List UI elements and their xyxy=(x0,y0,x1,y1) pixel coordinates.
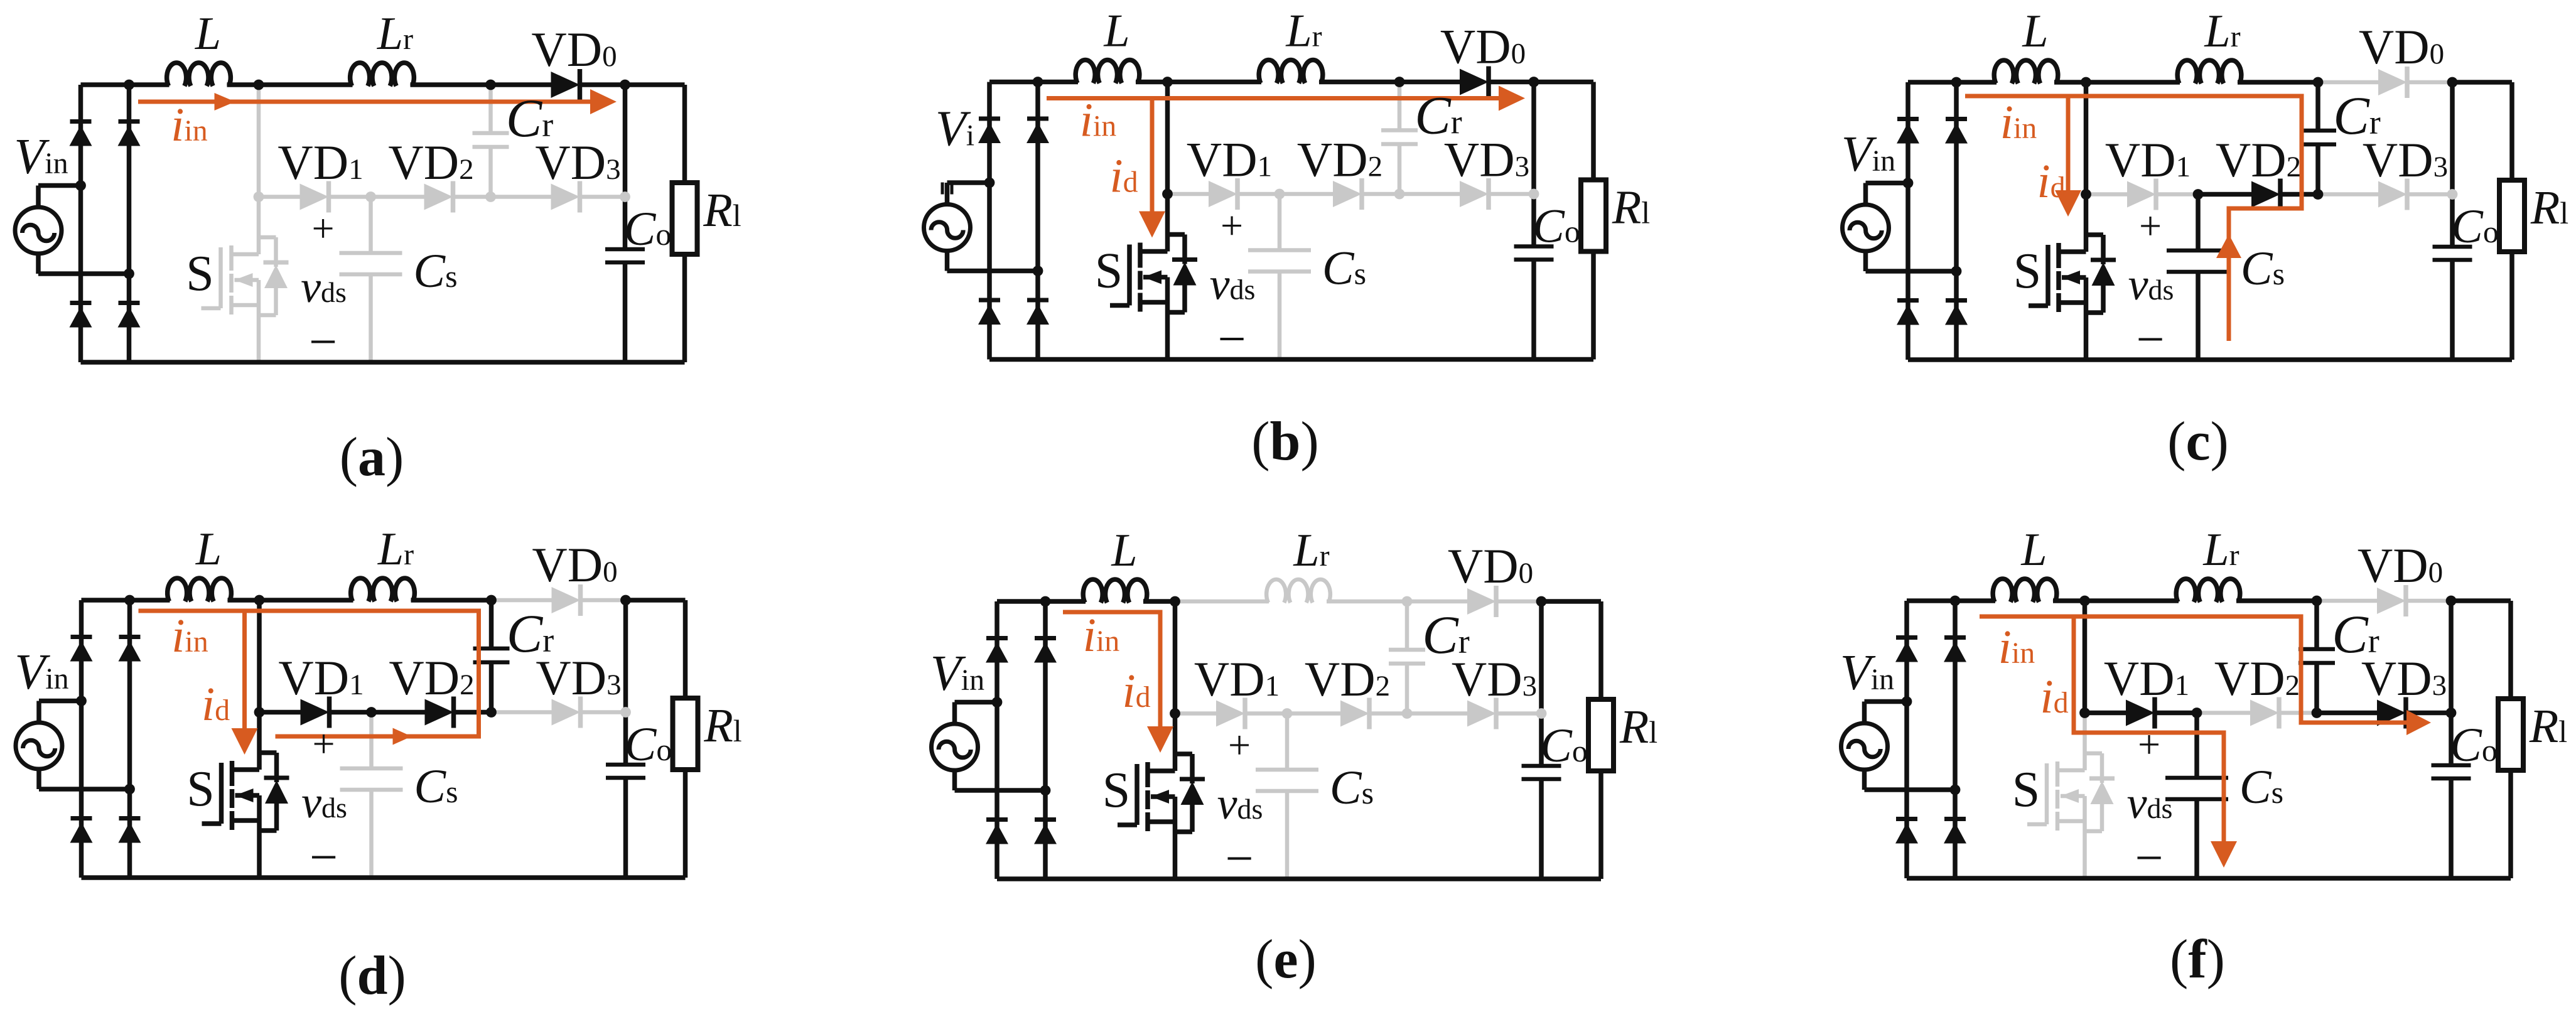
capacitor Cr (resonant) xyxy=(2298,649,2335,663)
capacitor Cs (snubber) xyxy=(340,768,403,790)
wire: Cr top node to VD0 xyxy=(492,598,552,603)
svg-text:+: + xyxy=(1221,203,1243,248)
wire: source bottom lead xyxy=(947,251,1038,271)
wire: Cr bottom node to VD3 xyxy=(2317,711,2377,716)
resistor Rl (load) xyxy=(1581,180,1606,252)
svg-text:(b): (b) xyxy=(1251,411,1319,472)
label Lr xyxy=(377,8,413,60)
wire: switch node down to drain xyxy=(2084,82,2089,195)
wire: Cs node to VD2 xyxy=(2198,192,2251,197)
diode VD1 xyxy=(300,181,329,213)
label L xyxy=(2020,524,2047,576)
svg-text:(d): (d) xyxy=(338,945,406,1006)
label Lr xyxy=(1285,6,1322,57)
wire: VD0 to output node xyxy=(1487,80,1534,85)
label plus sign xyxy=(311,206,334,250)
node: Lr / Cr / VD0 junction xyxy=(485,80,496,90)
wire: Co to bottom rail xyxy=(2449,778,2454,878)
label VD3 xyxy=(536,650,621,705)
diode VD3 xyxy=(552,697,581,728)
wire: bridge to inductor L xyxy=(989,80,1078,85)
diode VD2 xyxy=(2250,697,2279,729)
small terminal mark above source xyxy=(942,183,952,195)
resistor Rl (load) xyxy=(672,183,698,254)
wire: bridge right leg xyxy=(1954,82,1959,360)
wire: load to bottom rail xyxy=(2508,770,2513,878)
wire: output node down to Co xyxy=(1539,601,1544,766)
wire: bridge left leg xyxy=(987,82,992,360)
wire: top-right corner to load xyxy=(2509,82,2514,180)
wire: load to bottom rail xyxy=(2509,252,2514,360)
bridge diode upper-right xyxy=(1945,119,1968,144)
wire: Cs node to VD2 xyxy=(2197,711,2250,715)
label Co xyxy=(625,718,672,771)
wire: bottom return rail xyxy=(81,360,685,365)
label Lr xyxy=(2204,6,2240,57)
wire: Lr to Cr top node xyxy=(411,82,491,87)
wire: load to bottom rail xyxy=(1591,252,1596,360)
wire: Cs down to bottom rail xyxy=(2194,799,2199,878)
label S xyxy=(2013,244,2042,299)
label i_in (input current) xyxy=(2000,96,2037,149)
label Vin xyxy=(930,646,984,701)
wire: top node down to Cr xyxy=(488,85,493,133)
label S xyxy=(186,761,215,817)
bridge diode lower-left xyxy=(70,303,92,328)
node: VD1 / VD2 / Cs junction xyxy=(366,707,377,718)
wire: Cs node to VD2 xyxy=(371,195,424,199)
wire: output node to top-right corner xyxy=(1534,80,1593,85)
wire: diode row down to Cs xyxy=(1278,194,1282,250)
label VD1 xyxy=(2104,651,2189,706)
wire: Co to bottom rail xyxy=(1539,779,1544,879)
label Cr xyxy=(1415,85,1462,146)
wire: VD3 to output column xyxy=(579,710,626,714)
inductor Lr (resonant) xyxy=(1266,579,1330,603)
label L xyxy=(1111,525,1137,576)
wire: switch node to Lr xyxy=(2085,598,2179,603)
wire: VD0 to output node xyxy=(579,598,626,603)
body diode of switch S xyxy=(2086,235,2116,313)
wire: Cr top node to VD0 xyxy=(1399,80,1460,85)
wire: output node to top-right corner xyxy=(2452,80,2512,85)
node: source lead to right bridge leg xyxy=(1950,785,1961,795)
label plus sign xyxy=(1228,723,1251,767)
wire: switch node to Lr xyxy=(1175,600,1269,604)
svg-text:+: + xyxy=(311,206,334,250)
svg-text:L: L xyxy=(2022,6,2048,57)
wire: bridge to inductor L xyxy=(81,82,170,87)
svg-text:S: S xyxy=(2012,762,2040,817)
svg-text:+: + xyxy=(2138,722,2160,767)
diode VD0 (output boost diode) xyxy=(2378,67,2407,98)
wire: VD1 to Cs node xyxy=(1236,192,1280,196)
label Cs xyxy=(1322,242,1366,295)
label minus sign xyxy=(309,315,337,370)
wire: bridge right leg xyxy=(127,600,132,878)
body diode of switch S xyxy=(259,237,289,315)
wire: switch node to VD1 xyxy=(1175,711,1217,716)
wire: Co to bottom rail xyxy=(2450,260,2455,360)
diode VD1 xyxy=(1209,178,1237,210)
AC source Vin xyxy=(16,723,62,769)
node: VD3 cathode / output column junction xyxy=(2447,189,2458,200)
wire: load to bottom rail xyxy=(682,254,687,362)
capacitor Cs (snubber) xyxy=(1256,770,1318,791)
wire: VD1 to Cs node xyxy=(1244,711,1287,716)
wire: Cs down to bottom rail xyxy=(369,274,373,362)
label vds xyxy=(1217,778,1263,829)
inductor Lr (resonant) xyxy=(2177,60,2241,83)
label Cs xyxy=(2239,761,2283,814)
wire: VD3 to output column xyxy=(579,195,625,199)
wire: switch node to Lr xyxy=(2086,80,2180,85)
diode VD1 xyxy=(2126,697,2155,729)
node: switch drain / VD1 anode junction xyxy=(254,707,265,718)
wire: diode row down to Cs xyxy=(2194,713,2199,778)
wire: switch node down to drain xyxy=(2083,601,2088,713)
inductor Lr (resonant) xyxy=(350,63,414,86)
svg-text:L: L xyxy=(1103,6,1129,57)
wire: top node down to Cr xyxy=(2315,82,2320,131)
label VD0 xyxy=(531,22,617,77)
bridge diode lower-right xyxy=(118,303,141,328)
MOSFET switch S xyxy=(1110,194,1168,360)
label VD2 xyxy=(1297,132,1382,187)
bridge diode upper-left xyxy=(1895,638,1918,662)
wire: top node down to Cr xyxy=(489,600,494,648)
wire: Cr bottom node to VD3 xyxy=(2318,192,2378,196)
wire: Cr down to diode row xyxy=(1398,144,1402,195)
node: bridge right leg on top rail xyxy=(1040,596,1051,607)
MOSFET switch S xyxy=(1118,714,1175,880)
label Co xyxy=(2451,200,2499,253)
wire: bridge right leg xyxy=(1953,601,1958,878)
wire: output node to top-right corner xyxy=(1541,599,1601,604)
body diode of switch S xyxy=(1175,754,1205,832)
wire: VD0 to output node xyxy=(1495,600,1541,604)
wire: L to switch node xyxy=(2054,80,2086,85)
resistor Rl (load) xyxy=(2499,180,2525,252)
capacitor Co (output) xyxy=(2433,247,2472,260)
diode VD3 xyxy=(2377,697,2406,729)
wire: output node down to Co xyxy=(2450,82,2455,247)
node: VD3 cathode / output column junction xyxy=(1529,189,1539,200)
node: VD2 / VD3 / Cr junction xyxy=(486,707,497,718)
wire: bridge left leg xyxy=(78,85,84,362)
label S xyxy=(1095,244,1123,299)
label VD1 xyxy=(1194,652,1280,706)
svg-text:L: L xyxy=(195,8,221,60)
svg-text:S: S xyxy=(2013,244,2042,299)
node: VD1 / VD2 / Cs junction xyxy=(1282,708,1293,719)
label Vin xyxy=(935,102,974,157)
label Cs xyxy=(414,760,458,813)
wire: switch node down to drain xyxy=(1165,82,1170,195)
wire: VD3 to output column xyxy=(1487,192,1534,196)
wire: switch node to VD1 xyxy=(2085,711,2126,716)
node: L / Lr / switch drain junction xyxy=(254,595,265,606)
wire: source top lead xyxy=(38,186,81,208)
wire: VD3 to output column xyxy=(1495,711,1541,716)
wire: output node to top-right corner xyxy=(2451,598,2511,603)
label VD1 xyxy=(1187,132,1272,187)
inductor Lr (resonant) xyxy=(2176,579,2240,602)
label Cr xyxy=(506,88,553,148)
node: source lead to right bridge leg xyxy=(1033,266,1043,276)
capacitor Cs (snubber) xyxy=(2167,250,2229,272)
label S xyxy=(1102,763,1131,818)
AC source Vin xyxy=(924,205,971,251)
wire: load to bottom rail xyxy=(683,770,688,878)
wire: Co to bottom rail xyxy=(1531,260,1536,360)
wire: bridge to inductor L xyxy=(1907,598,1995,603)
label VD1 xyxy=(2105,132,2191,187)
wire: bridge left leg xyxy=(1905,82,1910,360)
bridge diode upper-right xyxy=(1034,638,1057,663)
wire: output node down to Co xyxy=(623,85,628,249)
node: VD3 cathode / output column junction xyxy=(620,191,630,202)
wire: L to switch node xyxy=(228,598,260,603)
label VD3 xyxy=(2363,132,2448,187)
wire: Cr top node to VD0 xyxy=(1407,600,1467,604)
wire: Cs down to bottom rail xyxy=(2196,272,2201,360)
wire: source top lead xyxy=(955,702,998,724)
inductor L xyxy=(1994,60,2058,83)
wire: Cs node to VD2 xyxy=(1280,192,1333,196)
node: L / Lr / switch drain junction xyxy=(2079,596,2090,606)
svg-text:−: − xyxy=(1225,831,1253,886)
wire: source top lead xyxy=(1865,702,1907,724)
capacitor Cr (resonant) xyxy=(473,133,509,147)
wire: VD2 to Cr bottom node xyxy=(453,710,492,715)
bridge diode lower-left xyxy=(978,300,1001,325)
AC source Vin xyxy=(1841,723,1888,770)
node: switch drain / VD1 anode junction xyxy=(1162,189,1173,200)
MOSFET switch S xyxy=(202,713,260,878)
wire: VD2 to Cr bottom node xyxy=(2279,192,2318,197)
svg-text:L: L xyxy=(1111,525,1137,576)
svg-text:S: S xyxy=(1095,244,1123,299)
wire: Cr top node to VD0 xyxy=(491,82,551,87)
node: source lead to left bridge leg xyxy=(75,180,86,191)
label vds xyxy=(301,262,347,312)
body diode of switch S xyxy=(259,753,289,831)
wire: bottom return rail xyxy=(1907,876,2511,881)
wire: bridge left leg xyxy=(79,600,84,878)
current path i_in: input current through VD0 to output xyxy=(1047,86,1525,111)
wire: Cr bottom node to VD3 xyxy=(492,710,552,714)
label Lr xyxy=(1293,525,1329,576)
wire: VD0 to output node xyxy=(2405,599,2451,603)
wire: Lr to Cr top node xyxy=(1327,600,1407,604)
node: VD3 cathode / output column junction xyxy=(2446,708,2457,718)
capacitor Co (output) xyxy=(1522,766,1561,779)
wire: VD0 to output node xyxy=(579,82,625,87)
node: source lead to right bridge leg xyxy=(1040,785,1051,796)
svg-text:(e): (e) xyxy=(1255,929,1317,990)
label i_in (input current) xyxy=(171,610,208,662)
resistor Rl (load) xyxy=(1588,699,1614,771)
wire: Cs down to bottom rail xyxy=(1278,272,1282,360)
wire: VD2 to Cr bottom node xyxy=(2278,711,2317,715)
label Rl xyxy=(1612,181,1650,234)
wire: output node down to Co xyxy=(623,600,628,765)
current path i_in: resonant loop Cs to Cr xyxy=(1965,96,2302,341)
label Rl xyxy=(703,699,741,752)
MOSFET switch S xyxy=(2029,195,2086,360)
wire: bottom return rail xyxy=(82,875,686,880)
node: VD0 cathode output junction xyxy=(1536,596,1547,607)
node: VD3 cathode / output column junction xyxy=(1536,708,1547,719)
svg-text:−: − xyxy=(2136,312,2164,367)
wire: Cr bottom node to VD3 xyxy=(1399,192,1460,196)
inductor Lr (resonant) xyxy=(351,578,415,601)
svg-text:(a): (a) xyxy=(340,427,404,488)
wire: output node to top-right corner xyxy=(625,82,685,87)
wire: L to switch node xyxy=(227,82,259,87)
wire: switch node to Lr xyxy=(259,82,353,87)
label VD3 xyxy=(1444,132,1529,187)
wire: source bottom lead xyxy=(38,254,129,274)
label minus sign xyxy=(1217,312,1246,367)
current path i_d: drain current into switch S xyxy=(1139,99,1165,238)
capacitor Cr (resonant) xyxy=(1381,131,1418,144)
svg-text:+: + xyxy=(2139,203,2162,248)
label Vin xyxy=(1841,127,1895,182)
label VD0 xyxy=(2358,538,2443,593)
wire: VD3 to output column xyxy=(2405,711,2451,716)
wire: Cr down to diode row xyxy=(489,662,494,713)
node: Lr / Cr / VD0 junction xyxy=(1402,596,1413,607)
label Co xyxy=(624,203,672,256)
resistor Rl (load) xyxy=(673,698,698,770)
wire: bridge to inductor L xyxy=(82,598,170,603)
resistor Rl (load) xyxy=(2498,699,2523,770)
node: bridge right leg on top rail xyxy=(124,595,135,606)
svg-text:(c): (c) xyxy=(2167,411,2229,472)
label S xyxy=(2012,762,2040,817)
diode VD2 xyxy=(425,697,454,728)
node: VD0 cathode output junction xyxy=(620,595,631,606)
label minus sign xyxy=(2136,312,2164,367)
current path i_d: drain current into switch S xyxy=(232,611,258,755)
diode VD3 xyxy=(1460,178,1489,210)
capacitor Co (output) xyxy=(1514,247,1554,260)
bridge diode upper-right xyxy=(1944,638,1966,662)
svg-text:+: + xyxy=(1228,723,1251,767)
wire: Co to bottom rail xyxy=(623,262,628,362)
node: VD1 / VD2 / Cs junction xyxy=(365,191,376,202)
label VD2 xyxy=(389,650,474,705)
label Lr xyxy=(2202,524,2239,576)
wire: switch node to VD1 xyxy=(259,195,300,199)
wire: top node down to Cr xyxy=(2314,601,2319,649)
label vds xyxy=(2128,259,2174,309)
diode VD1 xyxy=(1216,698,1245,729)
label Cr xyxy=(2332,604,2379,664)
wire: bottom return rail xyxy=(1908,357,2512,362)
bridge diode upper-right xyxy=(119,637,141,662)
wire: bridge left leg xyxy=(1904,601,1909,878)
wire: source top lead xyxy=(1866,183,1909,205)
bridge diode lower-right xyxy=(1034,820,1057,844)
capacitor Cr (resonant) xyxy=(2300,131,2336,144)
wire: bottom return rail xyxy=(989,357,1593,362)
label plus sign xyxy=(2138,722,2160,767)
capacitor Co (output) xyxy=(2432,765,2471,778)
node: Lr / Cr / VD0 junction xyxy=(2313,77,2324,88)
wire: switch node to VD1 xyxy=(2086,192,2128,196)
current path i_in: through L, Lr and VD0 xyxy=(138,89,617,114)
label Rl xyxy=(2530,181,2568,234)
bridge diode lower-left xyxy=(70,819,93,843)
wire: L to switch node xyxy=(1136,80,1168,85)
label Cr xyxy=(1422,605,1469,665)
label i_d (drain current) xyxy=(2037,155,2065,208)
inductor L xyxy=(167,63,231,86)
wire: load to bottom rail xyxy=(1598,771,1603,879)
label Cr xyxy=(507,603,554,664)
wire: bridge right leg xyxy=(127,85,132,362)
wire: Co to bottom rail xyxy=(623,778,628,878)
label i_in (input current) xyxy=(1080,94,1116,147)
wire: VD1 to Cs node xyxy=(328,710,372,715)
node: bridge right leg on top rail xyxy=(124,80,134,90)
label Lr xyxy=(377,524,414,575)
label S xyxy=(186,246,214,301)
label VD1 xyxy=(278,650,364,705)
node: source lead to left bridge leg xyxy=(1902,696,1912,707)
label Co xyxy=(1533,200,1580,253)
bridge diode lower-left xyxy=(986,820,1008,844)
label i_in (input current) xyxy=(1083,609,1119,662)
bridge diode lower-right xyxy=(1027,300,1049,325)
wire: switch node down to drain xyxy=(257,85,261,197)
diode VD3 xyxy=(1467,698,1496,729)
node: L / Lr / switch drain junction xyxy=(254,80,264,90)
diode VD1 xyxy=(301,697,330,728)
wire: L to switch node xyxy=(2053,598,2085,603)
node: VD1 / VD2 / Cs junction xyxy=(2192,708,2202,718)
diode VD2 xyxy=(424,181,453,213)
label Co xyxy=(2450,719,2498,772)
diode VD0 (output boost diode) xyxy=(1467,586,1496,617)
bridge diode lower-left xyxy=(1895,819,1918,844)
wire: top-right corner to load xyxy=(683,600,688,698)
node: VD2 / VD3 / Cr junction xyxy=(485,191,496,202)
diode VD1 xyxy=(2127,179,2156,210)
node: L / Lr / switch drain junction xyxy=(1162,77,1173,87)
inductor L xyxy=(1083,579,1147,603)
bridge diode upper-left xyxy=(70,122,92,146)
label vds xyxy=(1210,259,1256,309)
node: VD2 / VD3 / Cr junction xyxy=(2312,708,2322,718)
svg-text:L: L xyxy=(2020,524,2047,576)
label L xyxy=(2022,6,2048,57)
diode VD3 xyxy=(2378,179,2407,210)
bridge diode lower-right xyxy=(1944,819,1966,844)
node: VD0 cathode output junction xyxy=(1529,77,1539,87)
wire: Cr top node to VD0 xyxy=(2318,80,2378,85)
label VD1 xyxy=(278,135,363,190)
wire: bottom return rail xyxy=(997,876,1601,881)
label VD0 xyxy=(532,537,617,592)
wire: Cr top node to VD0 xyxy=(2317,599,2377,603)
label vds xyxy=(2127,778,2173,828)
bridge diode upper-right xyxy=(118,122,141,146)
label plus sign xyxy=(2139,203,2162,248)
